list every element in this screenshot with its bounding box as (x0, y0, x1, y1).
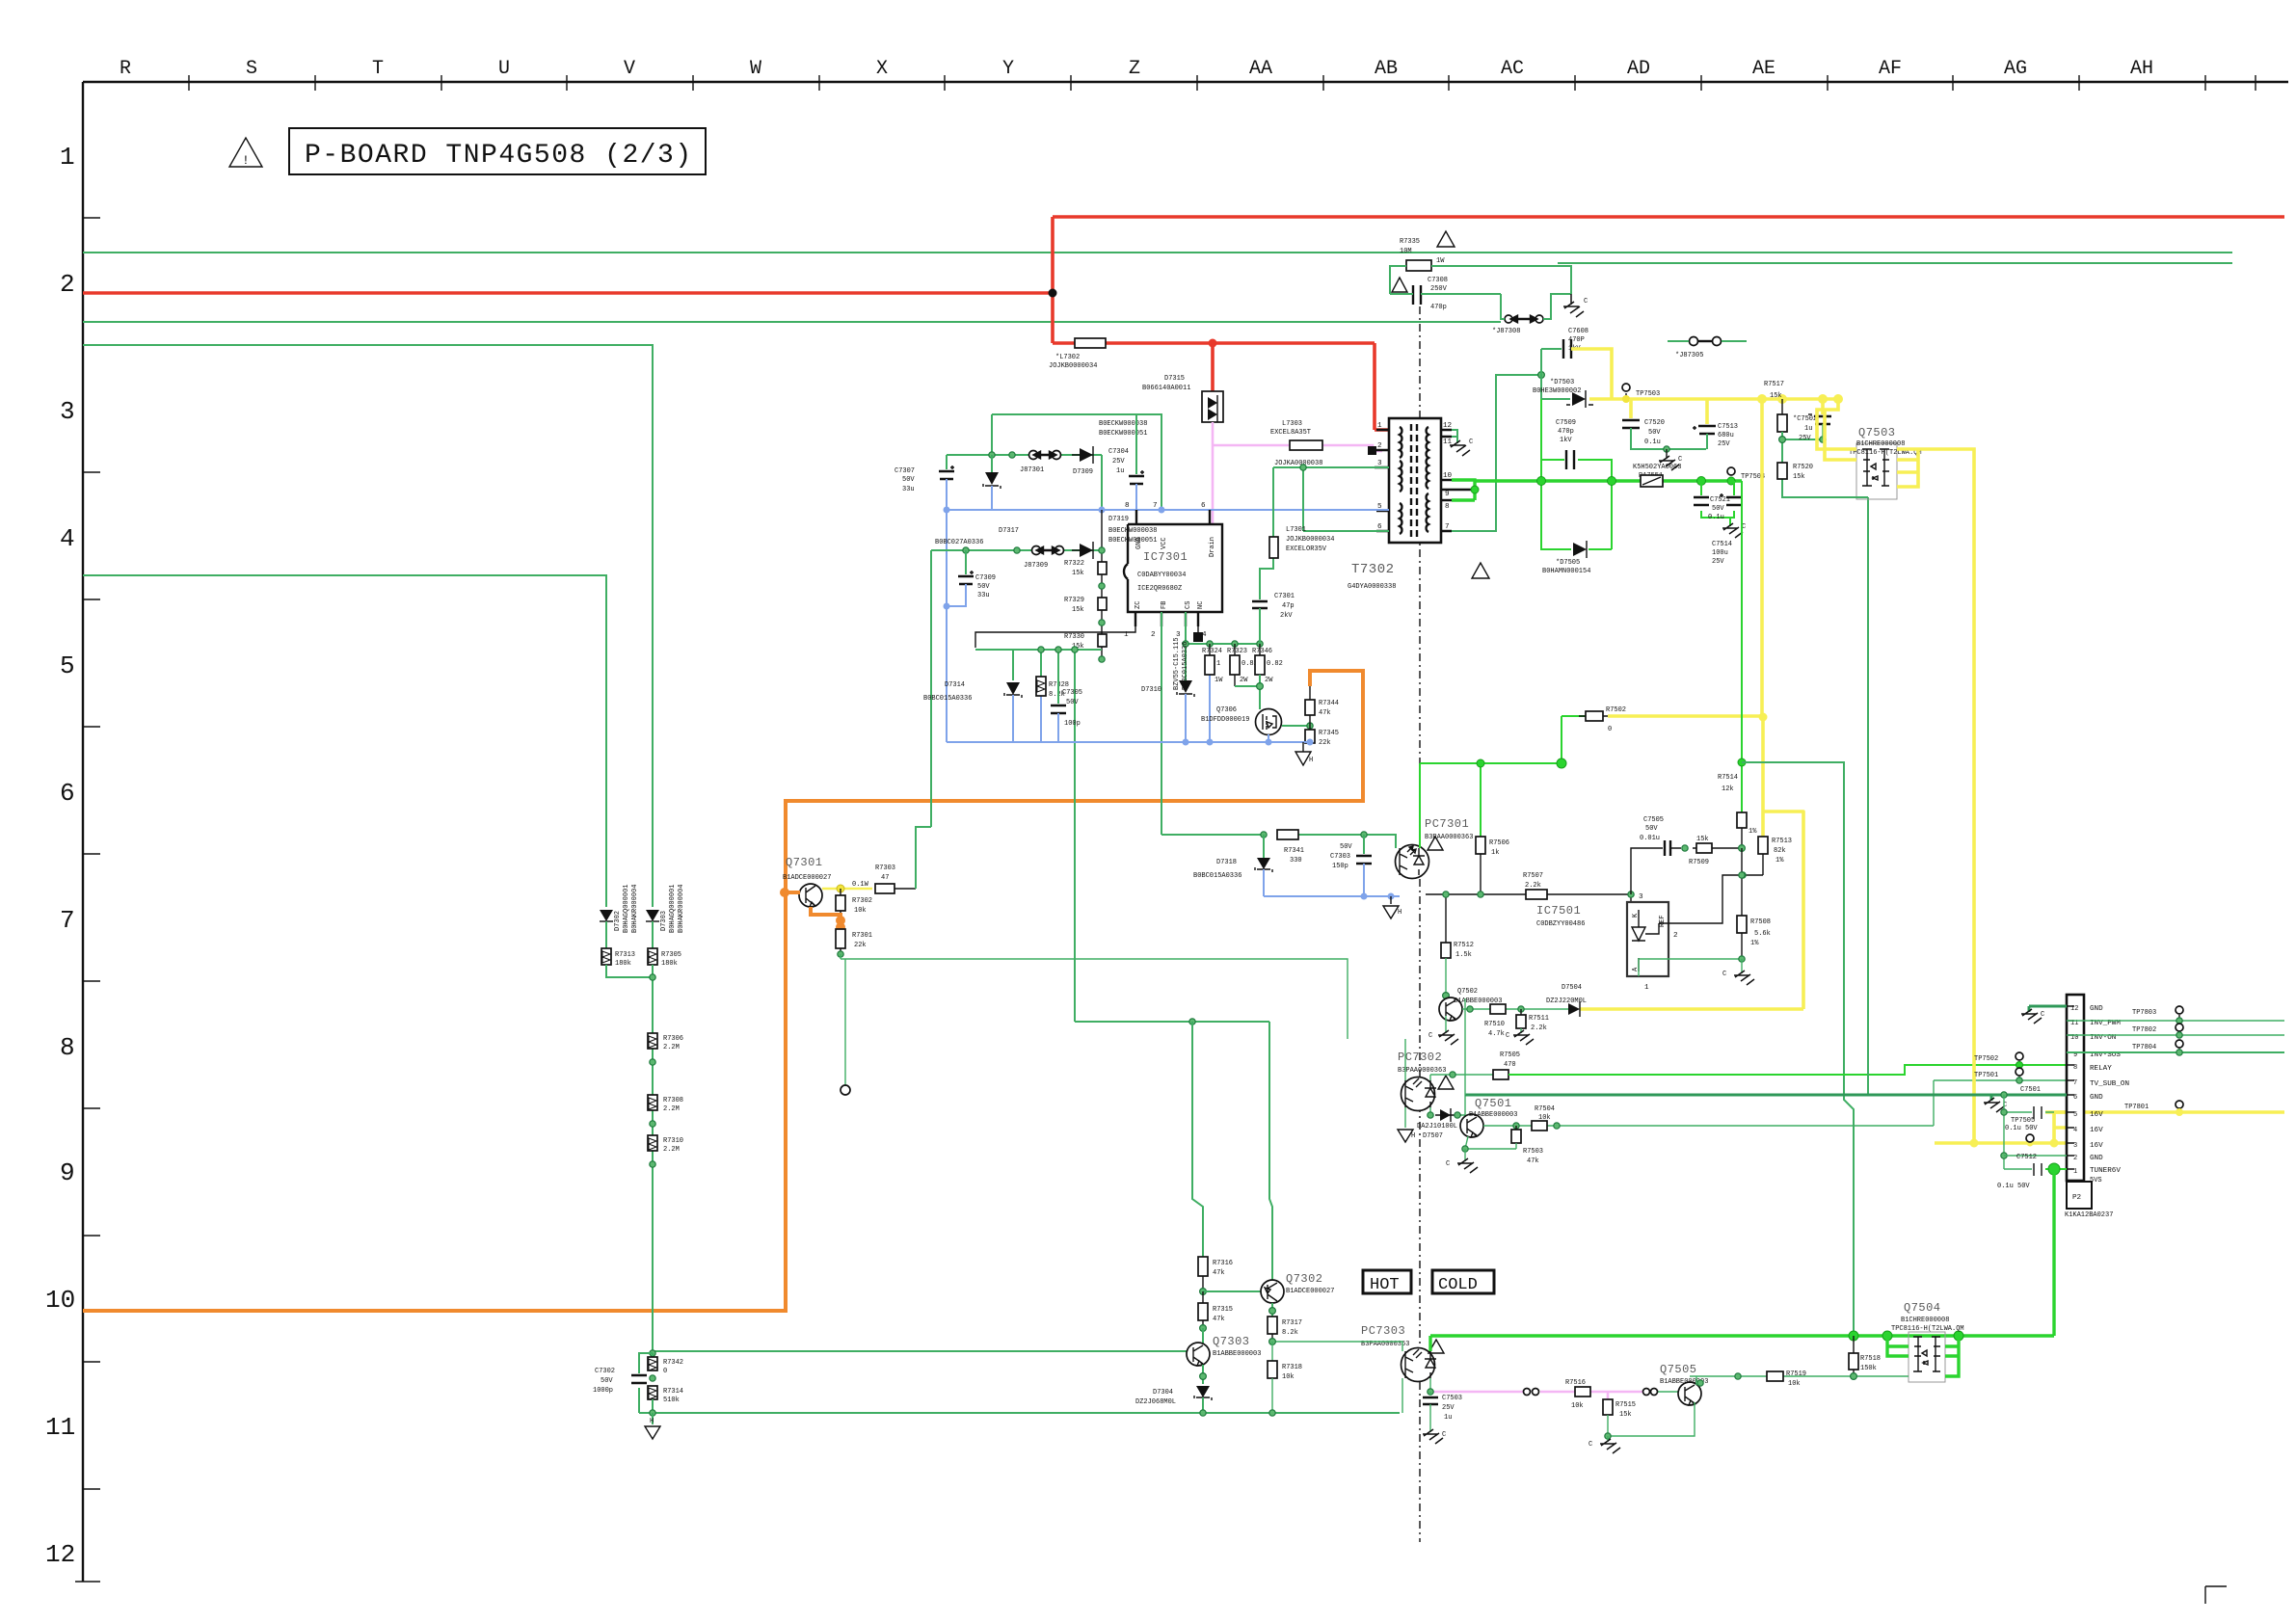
svg-text:Q7303: Q7303 (1213, 1335, 1250, 1348)
svg-text:R7346: R7346 (1252, 648, 1272, 655)
svg-text:47k: 47k (1319, 709, 1331, 717)
wire Q7502 emitter gnd (1445, 1016, 1447, 1033)
inductor L7302 (1075, 338, 1106, 348)
testpoint TP7505 (2026, 1134, 2034, 1142)
svg-text:L7301: L7301 (1286, 526, 1306, 534)
wire green long rail y995 (841, 959, 1348, 1039)
resistor R7509 (1696, 843, 1712, 853)
svg-text:V: V (624, 58, 635, 80)
resistor R7316 (1198, 1257, 1208, 1276)
mosfet Q7306 (1256, 709, 1282, 735)
svg-text:R7341: R7341 (1284, 847, 1304, 855)
svg-text:C7302: C7302 (595, 1368, 615, 1375)
resistor R7503 (1515, 1126, 1517, 1130)
wire pin10 INV-ON (2067, 1034, 2284, 1036)
svg-text:B0BC015A0336: B0BC015A0336 (923, 695, 972, 703)
IC7501 TL431 (1627, 902, 1669, 976)
svg-text:R7515: R7515 (1615, 1401, 1636, 1409)
svg-text:R7306: R7306 (663, 1035, 683, 1043)
capacitor C7509 loop (1541, 399, 1612, 549)
diode D7315 (1202, 391, 1223, 422)
svg-text:9: 9 (60, 1158, 75, 1187)
svg-text:GND: GND (2090, 1005, 2103, 1013)
node pin7 net (1538, 372, 1545, 379)
svg-text:R7324: R7324 (1202, 648, 1222, 655)
svg-text:16V: 16V (2090, 1142, 2103, 1150)
resistor chain R7322 R7329 R7330 (1101, 510, 1103, 659)
wire PC7302 bottom-left H ground (1404, 1107, 1406, 1128)
svg-text:510k: 510k (663, 1397, 680, 1404)
svg-text:0: 0 (663, 1368, 667, 1375)
capacitor C7303 (1363, 835, 1365, 854)
pin2 stub square (1368, 446, 1376, 455)
svg-text:AB: AB (1375, 58, 1398, 80)
svg-text:P-BOARD TNP4G508 (2/3): P-BOARD TNP4G508 (2/3) (305, 141, 693, 171)
svg-text:TP7503: TP7503 (1636, 390, 1660, 398)
svg-text:C0DBZYY00486: C0DBZYY00486 (1536, 920, 1585, 928)
svg-text:G4DYA0000338: G4DYA0000338 (1348, 583, 1396, 591)
wire yellow base row (822, 888, 872, 891)
fuse PA7551 (1641, 475, 1663, 487)
transistor Q7303 (1187, 1343, 1210, 1366)
svg-text:D7304: D7304 (1153, 1389, 1173, 1397)
svg-text:12: 12 (2070, 1005, 2078, 1013)
wire Q7306 to R7344 node (1282, 725, 1310, 727)
frame ticks left (75, 218, 100, 1582)
transformer T7302 (1375, 418, 1475, 543)
svg-text:7: 7 (1153, 502, 1158, 510)
capacitor C7305 (1057, 650, 1059, 704)
svg-text:GND: GND (2090, 1094, 2103, 1102)
svg-text:R7310: R7310 (663, 1137, 683, 1145)
wire green row B J87309 (916, 550, 1102, 889)
transistor Q7302 (1261, 1280, 1284, 1303)
svg-text:R7504: R7504 (1535, 1105, 1555, 1113)
svg-text:15k: 15k (1619, 1411, 1632, 1419)
wire yellow Q7503 gate feed (1817, 399, 1856, 460)
pins right (1441, 430, 1475, 531)
svg-text:4.7k: 4.7k (1488, 1030, 1505, 1038)
svg-text:0.1u 50V: 0.1u 50V (1997, 1183, 2030, 1190)
svg-text:R7322: R7322 (1064, 560, 1084, 568)
svg-text:PC7301: PC7301 (1425, 817, 1469, 831)
wire yellow R7502 net (1580, 716, 1803, 1009)
svg-text:2kV: 2kV (1280, 612, 1293, 620)
svg-text:DA2J10100L: DA2J10100L (1417, 1123, 1457, 1131)
svg-text:R7342: R7342 (663, 1359, 683, 1367)
svg-text:2: 2 (1151, 631, 1156, 639)
wire blue rail to pin5 (947, 509, 1389, 511)
svg-text:Z: Z (1129, 58, 1140, 80)
wire black fb row to IC7501 (1426, 894, 1631, 902)
svg-text:15k: 15k (1770, 392, 1782, 400)
diode D7310 zener (1179, 680, 1192, 693)
svg-text:25V: 25V (1112, 458, 1125, 466)
wire green CS row (1186, 644, 1260, 680)
svg-text:AD: AD (1627, 58, 1650, 80)
svg-text:R7510: R7510 (1484, 1021, 1505, 1028)
ground H bottom cluster (652, 1413, 654, 1424)
svg-text:82k: 82k (1774, 847, 1786, 855)
wire orange main loop (83, 671, 1363, 1311)
diode D7303 (646, 910, 659, 921)
svg-text:AA: AA (1249, 58, 1272, 80)
svg-text:AC: AC (1501, 58, 1524, 80)
svg-text:JOJKB0000034: JOJKB0000034 (1286, 536, 1334, 544)
svg-text:K1KA12BA0237: K1KA12BA0237 (2065, 1211, 2113, 1219)
ground C pin6 (1990, 1095, 1993, 1101)
wire PC7303 bottom-right pink node (1429, 1378, 1431, 1392)
svg-text:C7307: C7307 (894, 467, 915, 475)
svg-text:*J87305: *J87305 (1675, 352, 1703, 359)
node (1664, 446, 1669, 452)
svg-text:3: 3 (1639, 893, 1643, 901)
resistor R7520 (1777, 463, 1787, 479)
wire Q7501 emitter (1465, 1136, 1516, 1149)
resistor R7513 (1758, 837, 1768, 854)
capacitor C7304 (1135, 414, 1137, 474)
svg-text:3: 3 (1377, 460, 1382, 467)
svg-text:AH: AH (2130, 58, 2153, 80)
ground H primary (1302, 742, 1304, 752)
wire Q7302 emitter (1271, 1303, 1273, 1317)
testpoint TP7502 (2016, 1052, 2023, 1060)
node red junction D7315 (1209, 339, 1217, 348)
column labels (120, 58, 2153, 80)
svg-text:150p: 150p (1332, 863, 1348, 870)
wire bright green TUNER6V down to Q7504 (2052, 1169, 2055, 1336)
svg-text:PC7303: PC7303 (1361, 1324, 1405, 1338)
svg-text:C: C (2041, 1011, 2044, 1019)
svg-text:C7301: C7301 (1274, 593, 1295, 600)
svg-text:X: X (876, 58, 888, 80)
svg-text:10k: 10k (1282, 1373, 1295, 1381)
svg-text:D7507: D7507 (1423, 1132, 1443, 1140)
wire orange emitter (811, 907, 841, 922)
svg-text:*D7503: *D7503 (1550, 379, 1574, 386)
transistor Q7501 (1460, 1114, 1483, 1137)
svg-text:50V: 50V (1648, 429, 1661, 437)
svg-text:22k: 22k (1319, 739, 1331, 747)
svg-text:25V: 25V (1712, 558, 1724, 566)
wire green R7330 bottom row (975, 650, 1102, 1022)
svg-text:1.5k: 1.5k (1455, 951, 1472, 959)
svg-text:50V: 50V (601, 1377, 613, 1385)
svg-text:0.82: 0.82 (1267, 660, 1283, 668)
svg-text:47: 47 (881, 874, 889, 882)
svg-text:DZ2J068M0L: DZ2J068M0L (1135, 1398, 1176, 1406)
wire red vertical (1051, 217, 1055, 343)
title warning triangle (229, 138, 262, 167)
svg-text:T7302: T7302 (1351, 562, 1395, 577)
svg-text:D7318: D7318 (1216, 859, 1237, 866)
svg-text:10k: 10k (854, 907, 867, 915)
svg-text:B0BC015A0336: B0BC015A0336 (1182, 642, 1189, 690)
svg-text:11: 11 (45, 1413, 75, 1442)
svg-text:TP7802: TP7802 (2132, 1026, 2156, 1034)
node junctions bright rail (1537, 477, 1546, 486)
wire pin2 GND (2004, 1155, 2067, 1157)
resistor R7302 (840, 889, 841, 895)
ground C under C7520/C7513 (1666, 449, 1668, 459)
svg-text:H: H (1398, 909, 1402, 917)
diode D7304 zener (1196, 1386, 1210, 1397)
wire yellow Q7503 right pins (1897, 449, 1974, 1143)
wire red from left edge (83, 291, 1053, 295)
svg-text:JOJKB0000034: JOJKB0000034 (1049, 362, 1097, 370)
svg-text:TP7803: TP7803 (2132, 1009, 2156, 1017)
capacitor C7512 (2034, 1163, 2042, 1176)
svg-text:8: 8 (60, 1033, 75, 1062)
svg-text:Drain: Drain (1209, 537, 1216, 557)
ground C R7515 (1605, 1433, 1611, 1439)
svg-text:H: H (650, 1418, 654, 1425)
svg-text:3: 3 (60, 397, 75, 426)
svg-text:15k: 15k (1072, 606, 1084, 614)
diode D7314 zener (1012, 650, 1014, 680)
svg-text:C: C (1446, 1160, 1450, 1168)
wire pin1 ZC (975, 626, 1135, 648)
svg-text:TP7505: TP7505 (2011, 1117, 2035, 1125)
svg-text:1: 1 (1216, 660, 1220, 668)
svg-text:Q7301: Q7301 (786, 856, 823, 869)
optocoupler PC7302 (1402, 1078, 1435, 1111)
diode D7317 zener (991, 455, 993, 472)
wire green row A corner down (1101, 455, 1103, 510)
transistor Q7502 (1443, 993, 1450, 999)
wire blue bottom rail (947, 741, 1310, 743)
wire pin6 GND thick (1465, 1094, 2067, 1097)
svg-text:2.2k: 2.2k (1531, 1024, 1547, 1032)
svg-text:1%: 1% (1749, 828, 1757, 836)
svg-text:D7314: D7314 (945, 681, 965, 689)
svg-text:C7513: C7513 (1718, 423, 1738, 431)
resistor R7512 (1445, 894, 1447, 943)
wire PC7303 top-right to Q7504 rail (1428, 1336, 1431, 1351)
wire green G4 to D7303 chain (83, 345, 653, 907)
svg-text:1u: 1u (1804, 425, 1812, 433)
wire green pin6 line (1303, 467, 1389, 531)
optocoupler PC7303 (1402, 1348, 1435, 1382)
svg-text:1: 1 (1377, 422, 1382, 430)
svg-text:HOT: HOT (1370, 1276, 1400, 1294)
svg-text:PC7302: PC7302 (1398, 1051, 1442, 1064)
capacitor C7302 (631, 1375, 647, 1383)
svg-text:Y: Y (1002, 58, 1014, 80)
svg-text:K5H502YA0063: K5H502YA0063 (1633, 464, 1681, 471)
svg-text:25V: 25V (1799, 435, 1811, 442)
ground C R7508 (1741, 959, 1743, 973)
svg-text:Q7501: Q7501 (1475, 1097, 1512, 1110)
svg-text:2: 2 (2073, 1155, 2077, 1162)
resistor R7345 (1309, 726, 1311, 743)
svg-text:8: 8 (1445, 503, 1450, 511)
capacitor C7513 (1705, 399, 1709, 424)
testpoint TP7504 (1727, 467, 1735, 475)
resistor R7516 (1575, 1387, 1590, 1397)
svg-text:470p: 470p (1558, 428, 1574, 436)
ground C7608 (1563, 294, 1584, 317)
resistor R7313 (605, 921, 607, 948)
svg-text:100p: 100p (1064, 720, 1081, 728)
svg-text:TP7801: TP7801 (2124, 1104, 2149, 1111)
svg-text:AG: AG (2004, 58, 2027, 80)
svg-text:6: 6 (1377, 523, 1382, 531)
svg-text:IC7501: IC7501 (1536, 904, 1581, 918)
COLD box (1432, 1270, 1494, 1293)
wire pin12 to ground (1452, 430, 1457, 443)
svg-text:R7330: R7330 (1064, 633, 1084, 641)
svg-text:C7503: C7503 (1442, 1395, 1462, 1402)
svg-text:1u: 1u (1444, 1414, 1452, 1422)
svg-text:R7511: R7511 (1529, 1015, 1549, 1023)
warning triangle (1437, 231, 1455, 247)
svg-text:H: H (1309, 757, 1313, 764)
diode D7319 (1080, 544, 1093, 557)
svg-text:C7501: C7501 (2020, 1086, 2041, 1094)
svg-text:B1ADCE000027: B1ADCE000027 (1286, 1288, 1334, 1295)
svg-text:1k: 1k (1491, 849, 1499, 857)
wire Q7501 base to GND line (1461, 1095, 1465, 1120)
svg-text:C7509: C7509 (1556, 419, 1576, 427)
svg-text:0.01u: 0.01u (1640, 835, 1660, 842)
svg-text:47k: 47k (1213, 1269, 1225, 1277)
svg-text:EXCEL8A35T: EXCEL8A35T (1270, 429, 1311, 437)
resistor R7504 (1532, 1121, 1547, 1131)
svg-text:C: C (1428, 1032, 1432, 1040)
pins left (1375, 430, 1389, 531)
svg-text:R7505: R7505 (1500, 1051, 1520, 1059)
wire green pin3 line (1273, 466, 1389, 468)
svg-text:0.1u 50V: 0.1u 50V (2005, 1125, 2038, 1132)
jumper J87308 (1505, 315, 1512, 323)
svg-text:B0BC027A0336: B0BC027A0336 (935, 539, 983, 546)
svg-text:R7502: R7502 (1606, 706, 1626, 714)
title box P-BOARD TNP4G508 (2/3) (289, 128, 706, 174)
wire yellow long vertical to 16V pins (1760, 399, 1764, 716)
svg-text:R7308: R7308 (663, 1097, 683, 1104)
svg-text:1u: 1u (1116, 467, 1124, 475)
svg-text:1: 1 (60, 143, 75, 172)
svg-text:COLD: COLD (1438, 1276, 1478, 1294)
svg-text:5: 5 (60, 652, 75, 680)
resistor R7508 (1741, 875, 1743, 916)
wire green FB row (1161, 835, 1396, 848)
wire bright green R7514 top (1741, 481, 1743, 812)
secondary windings (1427, 427, 1428, 489)
bottom cluster C7302 R7342 R7314 (650, 1350, 655, 1356)
svg-text:10k: 10k (1571, 1402, 1584, 1410)
svg-text:C7521: C7521 (1710, 496, 1730, 504)
jumper J87305 (1690, 337, 1698, 346)
ground H pc7301 (1390, 896, 1392, 904)
svg-text:25V: 25V (1718, 440, 1730, 448)
diode D7504 (1568, 1003, 1580, 1015)
svg-text:R7344: R7344 (1319, 700, 1339, 707)
svg-text:7: 7 (60, 906, 75, 935)
svg-text:REF: REF (1659, 915, 1667, 927)
svg-text:R7335: R7335 (1400, 238, 1420, 246)
diode D7309 (1080, 448, 1093, 462)
bottom right corner mark (2205, 1586, 2227, 1604)
diode D7318 zener (1263, 835, 1265, 858)
svg-text:D7317: D7317 (999, 527, 1019, 535)
wire Q7303 emitter / D7304 (1202, 1365, 1204, 1384)
svg-text:D7303: D7303 (660, 911, 668, 931)
wire yellow TP7801 (2045, 1110, 2284, 1114)
svg-text:7: 7 (2073, 1079, 2077, 1087)
wire bright green RELAY run (1508, 1065, 2067, 1075)
wire TV_SUB_ON (1934, 1080, 2067, 1126)
svg-text:C7309: C7309 (975, 574, 996, 582)
jumper crossing symbols pink (1524, 1389, 1531, 1396)
capacitor C7520 (1629, 399, 1633, 418)
resistor R7344 (1309, 686, 1311, 726)
svg-text:C: C (1442, 1431, 1446, 1439)
svg-text:Q7503: Q7503 (1858, 426, 1896, 439)
svg-text:TP7804: TP7804 (2132, 1044, 2156, 1051)
svg-text:1kV: 1kV (1560, 437, 1572, 444)
svg-text:1000p: 1000p (593, 1387, 613, 1395)
node yellow junctions (1757, 394, 1767, 404)
wire pink bottom row (1430, 1392, 1642, 1399)
resistor R7324 (1209, 675, 1211, 742)
svg-text:R7302: R7302 (852, 897, 872, 905)
svg-text:C: C (1589, 1441, 1592, 1449)
diode D7507 (1429, 1107, 1431, 1115)
core dashes (1410, 424, 1412, 537)
resistor R7511 (1520, 1009, 1522, 1015)
svg-text:ICE2QR0680Z: ICE2QR0680Z (1137, 585, 1182, 593)
diode D7505 (1573, 543, 1587, 556)
svg-text:5: 5 (2073, 1111, 2077, 1119)
svg-text:B1DFDD000019: B1DFDD000019 (1201, 716, 1249, 724)
wire green to right vertical (1742, 762, 1854, 1336)
svg-text:R7318: R7318 (1282, 1364, 1302, 1371)
svg-text:B0HAKR000004: B0HAKR000004 (678, 885, 685, 933)
node (1300, 465, 1306, 470)
svg-text:C: C (1506, 1032, 1509, 1040)
svg-text:330: 330 (1290, 857, 1302, 865)
svg-text:VCC: VCC (1161, 537, 1168, 549)
svg-text:2: 2 (60, 270, 75, 299)
svg-text:10: 10 (1443, 472, 1453, 480)
svg-text:B0HAGQ000001: B0HAGQ000001 (669, 885, 677, 933)
resistor R7301 (836, 929, 845, 948)
capacitor C7301 (1252, 601, 1268, 608)
wire green row A J87301 (947, 454, 1102, 456)
svg-text:100u: 100u (1712, 549, 1728, 557)
svg-text:R7520: R7520 (1793, 464, 1813, 471)
ground C pin12 (1450, 440, 1470, 456)
svg-text:47k: 47k (1213, 1316, 1225, 1323)
svg-text:2.2M: 2.2M (663, 1105, 680, 1113)
svg-text:P2: P2 (2072, 1194, 2082, 1202)
svg-text:FB: FB (1161, 601, 1168, 609)
svg-text:EXCELOR35V: EXCELOR35V (1286, 545, 1327, 553)
resistor R7318 (1271, 1342, 1273, 1361)
svg-text:2.2k: 2.2k (1525, 882, 1541, 890)
svg-text:J87309: J87309 (1024, 562, 1048, 570)
svg-text:B1CHRE000008: B1CHRE000008 (1856, 440, 1905, 448)
frame ticks top (189, 75, 2256, 91)
svg-text:R7517: R7517 (1764, 381, 1784, 388)
wire green pin2 FB down (1161, 612, 1162, 835)
svg-text:C7505: C7505 (1643, 816, 1664, 824)
node (989, 452, 995, 458)
svg-text:Q7502: Q7502 (1457, 988, 1478, 996)
resistor R7510 (1490, 1004, 1506, 1014)
